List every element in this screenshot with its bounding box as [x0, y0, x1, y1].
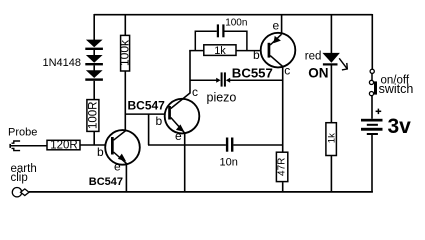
- wire BC557 emitter to top rail: [281, 14, 283, 34]
- wire 100k to Q1 collector / node A: [124, 71, 126, 131]
- svg-text:1k: 1k: [326, 133, 337, 143]
- wire 1k to BC557 base: [236, 50, 261, 52]
- resistor 1k (LED): [326, 123, 337, 156]
- svg-text:3v: 3v: [388, 115, 412, 138]
- capacitor 10n: [226, 138, 234, 152]
- svg-text:c: c: [284, 64, 290, 78]
- wire Q2 collector up to node B: [189, 51, 191, 94]
- wire 47R to bottom rail: [282, 182, 284, 192]
- wire node B to 1k: [189, 50, 204, 52]
- diode D1 (1N4148): [85, 40, 103, 50]
- transistor Q1 BC547: [105, 130, 140, 165]
- resistor 100k: [117, 35, 131, 71]
- svg-text:47R: 47R: [277, 158, 288, 176]
- wire piezo line: [190, 79, 217, 81]
- resistor 100R: [87, 100, 100, 132]
- wire 100n left branch: [195, 31, 217, 50]
- wire Q1 emitter to bottom rail: [125, 163, 127, 192]
- wire 120R to Q1 base (junction with 100R drop at x=94): [80, 144, 105, 146]
- capacitor 100n: [217, 24, 225, 37]
- svg-text:100n: 100n: [225, 18, 247, 29]
- diode D2 (1N4148): [85, 55, 103, 65]
- wire bottom rail: [29, 191, 373, 193]
- probe connector: [10, 141, 20, 151]
- wire probe to 120R: [10, 145, 48, 147]
- label +: [376, 109, 382, 115]
- wire rail to 100k: [124, 14, 126, 35]
- svg-text:100k: 100k: [117, 39, 131, 66]
- svg-text:red: red: [305, 50, 322, 62]
- wire LED to 1k: [330, 66, 332, 123]
- wire 1k to bottom rail: [330, 155, 332, 192]
- wire switch branch from rail: [371, 14, 373, 69]
- wire feedback line to 10n: [148, 144, 226, 146]
- piezo transducer: [216, 72, 230, 86]
- transistor Q2 BC547: [165, 93, 200, 133]
- svg-text:BC557: BC557: [232, 66, 273, 81]
- resistor 47R: [276, 152, 287, 181]
- svg-text:e: e: [273, 18, 280, 32]
- wire Q2 emitter to bottom rail: [184, 133, 186, 192]
- svg-text:b: b: [97, 145, 104, 159]
- wire piezo to BC557 collector: [230, 79, 284, 81]
- svg-text:1N4148: 1N4148: [43, 57, 82, 69]
- wire between D2 and D3: [93, 65, 95, 70]
- svg-text:Probe: Probe: [8, 127, 37, 139]
- wire switch to battery: [371, 96, 373, 119]
- svg-text:switch: switch: [379, 82, 414, 96]
- switch on/off: [369, 69, 377, 95]
- resistor 1k (timing): [204, 45, 236, 57]
- svg-text:c: c: [192, 85, 198, 99]
- wire 100R to probe line: [93, 131, 95, 145]
- transistor U1 BC557: [261, 33, 296, 68]
- LED emission arrow: [339, 58, 347, 70]
- wire between D1 and D2: [93, 50, 95, 55]
- wire left drop from rail to diode chain: [93, 14, 95, 40]
- wire 100n right branch: [225, 31, 247, 50]
- wire 10n to 47R top / BC557 collector: [233, 144, 283, 146]
- svg-text:1k: 1k: [214, 45, 226, 57]
- resistor 120R: [47, 139, 80, 151]
- LED red: [322, 53, 340, 66]
- svg-text:e: e: [175, 129, 182, 143]
- wire battery to bottom rail: [371, 135, 373, 192]
- svg-text:100R: 100R: [87, 102, 99, 130]
- wire top positive rail: [94, 14, 372, 16]
- svg-text:10n: 10n: [220, 157, 238, 169]
- svg-text:120R: 120R: [50, 139, 78, 151]
- svg-text:clip: clip: [11, 172, 28, 184]
- svg-text:piezo: piezo: [207, 90, 237, 104]
- diode D3 (1N4148): [85, 70, 103, 81]
- wire D3 to 100R: [93, 81, 95, 100]
- svg-text:ON: ON: [308, 66, 328, 81]
- wire Q2 base node down to feedback line: [148, 114, 150, 145]
- wire node A to Q2 base: [125, 113, 164, 115]
- battery 3v: [361, 119, 383, 135]
- svg-text:BC547: BC547: [89, 176, 123, 188]
- svg-text:b: b: [253, 48, 260, 62]
- earth clip connector: [12, 188, 29, 197]
- svg-text:b: b: [156, 114, 163, 128]
- wire LED branch from rail: [330, 14, 332, 53]
- svg-text:e: e: [114, 160, 121, 174]
- wire BC557 collector down to 47R: [282, 66, 284, 152]
- svg-text:BC547: BC547: [128, 98, 166, 112]
